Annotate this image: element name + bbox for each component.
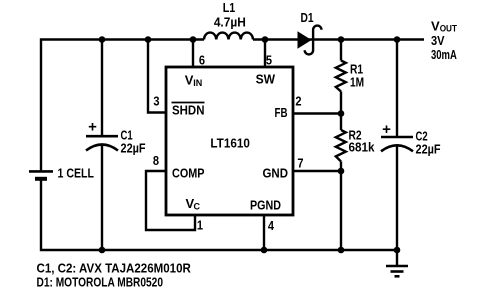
svg-text:+: +: [88, 119, 97, 136]
svg-text:1M: 1M: [350, 75, 364, 89]
svg-text:3: 3: [153, 94, 159, 109]
svg-text:GND: GND: [263, 166, 289, 181]
svg-text:1 CELL: 1 CELL: [58, 165, 94, 180]
svg-text:7: 7: [297, 156, 303, 171]
svg-text:V: V: [431, 19, 440, 34]
svg-text:6: 6: [199, 53, 205, 68]
svg-text:2: 2: [295, 94, 301, 109]
svg-text:IN: IN: [193, 78, 202, 88]
svg-text:C: C: [194, 202, 201, 212]
svg-text:4: 4: [268, 218, 274, 233]
svg-text:22µF: 22µF: [121, 141, 146, 156]
svg-text:22µF: 22µF: [416, 142, 441, 157]
svg-text:COMP: COMP: [172, 166, 204, 181]
svg-text:5: 5: [266, 53, 272, 68]
svg-text:FB: FB: [275, 107, 288, 121]
svg-text:L1: L1: [223, 0, 236, 15]
svg-text:4.7µH: 4.7µH: [214, 15, 246, 30]
svg-text:D1: D1: [300, 11, 314, 25]
svg-text:C1, C2: AVX TAJA226M010R: C1, C2: AVX TAJA226M010R: [37, 261, 191, 276]
svg-text:30mA: 30mA: [431, 49, 457, 63]
svg-text:681k: 681k: [349, 140, 375, 155]
svg-text:OUT: OUT: [440, 23, 458, 33]
svg-text:8: 8: [153, 153, 159, 168]
svg-text:D1: MOTOROLA MBR0520: D1: MOTOROLA MBR0520: [37, 275, 163, 289]
svg-text:3V: 3V: [431, 33, 445, 48]
svg-text:SHDN: SHDN: [172, 103, 205, 118]
svg-text:SW: SW: [256, 72, 276, 86]
svg-text:1: 1: [197, 218, 203, 233]
svg-text:PGND: PGND: [250, 198, 281, 213]
svg-text:LT1610: LT1610: [210, 136, 250, 151]
svg-text:+: +: [382, 121, 391, 138]
